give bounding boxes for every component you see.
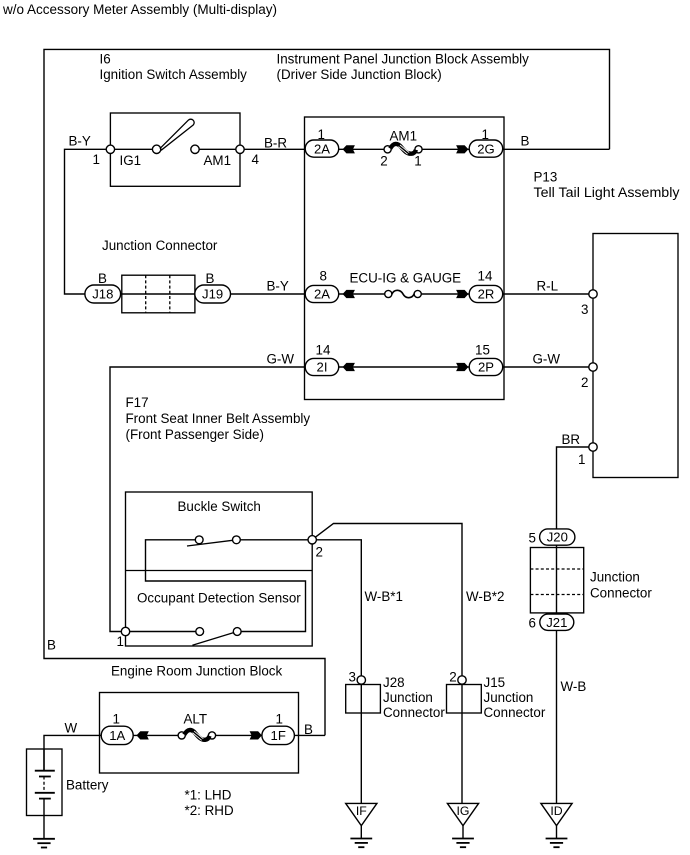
svg-text:Connector: Connector: [590, 585, 652, 600]
connector 2G pin 1: [469, 127, 503, 157]
ground IG: [447, 803, 478, 847]
wire G-W (2I to F17 pin1): [110, 351, 306, 631]
svg-text:2I: 2I: [317, 360, 328, 375]
F17 box: [126, 492, 313, 646]
connector 2A pin 1 (row1): [305, 127, 339, 157]
svg-text:Connector: Connector: [383, 705, 445, 720]
label I6 Ignition Switch Assembly: [100, 51, 248, 82]
battery: [27, 749, 109, 839]
svg-text:J18: J18: [92, 287, 113, 302]
wire through junction connector: [120, 293, 195, 295]
connector J21 pin 6: [529, 614, 574, 631]
svg-text:(Driver Side Junction Block): (Driver Side Junction Block): [277, 67, 442, 82]
svg-text:1: 1: [276, 711, 283, 726]
svg-text:J21: J21: [546, 615, 567, 630]
connector 1A pin 1: [101, 711, 133, 744]
svg-text:IF: IF: [356, 804, 367, 818]
node pin 1 (P13): [578, 443, 597, 467]
svg-text:B-R: B-R: [264, 135, 287, 150]
title text: [2, 2, 277, 17]
svg-text:B: B: [521, 133, 530, 148]
svg-text:2A: 2A: [314, 141, 330, 156]
tell tail light assembly box: [593, 234, 678, 478]
arrow into 1A: [133, 731, 178, 739]
svg-text:1: 1: [117, 634, 124, 649]
node pin 2 (P13): [581, 363, 597, 390]
fuse ECU-IG & GAUGE: [350, 271, 462, 298]
wire BR (P13 pin1 to J20): [557, 432, 589, 803]
junction connector J15: [447, 669, 546, 720]
svg-text:I6: I6: [100, 51, 111, 66]
svg-text:B: B: [47, 638, 56, 653]
connector 2R pin 14: [469, 268, 503, 302]
note *1 LHD *2 RHD: [185, 788, 234, 819]
svg-text:G-W: G-W: [533, 351, 561, 366]
ground ID: [541, 803, 572, 847]
connector J20 pin 5: [529, 529, 575, 545]
svg-text:1: 1: [578, 452, 585, 467]
svg-text:w/o Accessory Meter Assembly (: w/o Accessory Meter Assembly (Multi-disp…: [2, 2, 277, 17]
svg-text:W-B*2: W-B*2: [466, 589, 504, 604]
connector 2A pin 8 (row2): [305, 268, 339, 302]
svg-text:W-B: W-B: [561, 679, 587, 694]
svg-text:4: 4: [252, 152, 260, 167]
svg-text:R-L: R-L: [537, 278, 559, 293]
svg-text:Battery: Battery: [66, 778, 109, 793]
svg-text:1: 1: [93, 152, 100, 167]
arrow into 2I: [343, 363, 355, 371]
svg-text:2: 2: [581, 375, 588, 390]
svg-text:2G: 2G: [477, 141, 494, 156]
occupant detection sensor contacts and lever: [192, 628, 241, 646]
wire W-B*2 (F17 pin2 to J15 and ground IG): [315, 524, 504, 804]
label Buckle Switch: [178, 499, 261, 514]
pin 2 (F17): [308, 536, 323, 560]
svg-text:2R: 2R: [478, 287, 495, 302]
fuse AM1: [380, 129, 422, 169]
wire W-B (J21 to ground ID): [561, 679, 587, 694]
wire B-Y (J19 to 2A row2): [231, 278, 306, 294]
connector 1F pin 1: [262, 711, 295, 744]
svg-text:W-B*1: W-B*1: [365, 589, 403, 604]
wire B-Y (ignition pin1 to J18): [65, 134, 109, 294]
ground IF: [346, 803, 377, 847]
pin 4 (ignition switch): [236, 145, 260, 167]
svg-text:IG: IG: [457, 804, 470, 818]
svg-text:J19: J19: [202, 287, 223, 302]
node pin 3 (P13): [581, 290, 597, 317]
svg-text:Junction: Junction: [383, 690, 433, 705]
svg-text:8: 8: [320, 268, 327, 283]
arrow into 2P: [456, 363, 468, 371]
svg-text:B: B: [304, 722, 313, 737]
connector 2I pin 14 (row3): [305, 342, 339, 375]
ignition switch lever: [160, 119, 194, 150]
svg-text:B: B: [98, 271, 107, 286]
label Occupant Detection Sensor: [137, 590, 301, 605]
svg-text:J28: J28: [383, 675, 405, 690]
arrow into 2G: [422, 145, 470, 153]
svg-text:2P: 2P: [478, 360, 494, 375]
label Junction Connector (J18/J19): [102, 238, 218, 253]
arrow into 1F: [216, 731, 262, 739]
svg-text:G-W: G-W: [267, 351, 295, 366]
svg-text:6: 6: [529, 616, 536, 631]
svg-text:J15: J15: [484, 675, 506, 690]
svg-text:2A: 2A: [314, 287, 330, 302]
svg-text:Instrument Panel Junction Bloc: Instrument Panel Junction Block Assembly: [277, 51, 530, 66]
svg-text:Junction Connector: Junction Connector: [102, 238, 218, 253]
svg-text:ECU-IG & GAUGE: ECU-IG & GAUGE: [350, 271, 462, 286]
buckle switch wire loop: [146, 540, 309, 632]
connector J18: [85, 271, 121, 303]
svg-text:AM1: AM1: [204, 153, 232, 168]
wire B-R (pin4 to 2A): [244, 135, 305, 150]
svg-text:ID: ID: [550, 804, 562, 818]
svg-text:IG1: IG1: [120, 153, 142, 168]
svg-text:F17: F17: [126, 395, 149, 410]
svg-text:1A: 1A: [109, 728, 125, 743]
svg-text:Buckle Switch: Buckle Switch: [178, 499, 261, 514]
ground (battery): [33, 839, 55, 848]
wire B (1F to loop): [295, 722, 326, 737]
connector J19: [195, 271, 231, 303]
svg-text:W: W: [65, 721, 78, 736]
wire W (battery to 1A): [44, 721, 102, 770]
wire 2I to 2P: [339, 366, 470, 368]
arrow into 2A row2: [339, 290, 385, 298]
label P13 Tell Tail Light Assembly: [534, 170, 680, 201]
svg-text:2: 2: [449, 669, 456, 684]
fuse ALT: [178, 712, 216, 741]
connector 2P pin 15: [469, 342, 503, 375]
svg-text:Connector: Connector: [484, 705, 546, 720]
svg-text:1: 1: [113, 711, 120, 726]
pin 1 (ignition switch): [93, 145, 115, 167]
label F17 Front Seat Inner Belt Assembly: [126, 395, 311, 442]
occupant detection sensor wire: [130, 631, 196, 633]
svg-text:*1: LHD: *1: LHD: [185, 788, 232, 803]
ignition switch box I6: [110, 113, 240, 186]
svg-text:2: 2: [316, 544, 323, 559]
svg-text:3: 3: [581, 302, 588, 317]
svg-text:Tell Tail Light Assembly: Tell Tail Light Assembly: [534, 185, 680, 200]
engine room junction block box: [100, 693, 299, 774]
wire B loop (battery to ignition/2G): [44, 49, 610, 735]
svg-text:15: 15: [475, 342, 490, 357]
label Instrument Panel Junction Block Assembly: [277, 51, 530, 82]
svg-text:Occupant Detection Sensor: Occupant Detection Sensor: [137, 590, 301, 605]
wire W-B*1 (F17 pin2 to J28 and ground IF): [316, 540, 403, 804]
wire G-W (2P to P13 pin2): [503, 351, 589, 367]
svg-text:ALT: ALT: [184, 712, 208, 727]
svg-text:P13: P13: [534, 170, 558, 185]
svg-text:Front Seat Inner Belt Assembly: Front Seat Inner Belt Assembly: [126, 411, 311, 426]
switch contact AM1: [191, 145, 236, 168]
svg-text:B-Y: B-Y: [69, 134, 91, 149]
svg-text:Junction: Junction: [484, 690, 534, 705]
arrow into 2R: [421, 290, 469, 298]
svg-text:14: 14: [478, 268, 493, 283]
wire R-L (2R to P13 pin3): [503, 278, 589, 294]
junction connector J28: [346, 669, 446, 720]
svg-text:5: 5: [529, 530, 536, 545]
wire B (2G to loop): [503, 133, 610, 149]
svg-text:BR: BR: [562, 432, 581, 447]
svg-text:1: 1: [318, 127, 325, 142]
svg-text:(Front Passenger Side): (Front Passenger Side): [126, 427, 264, 442]
svg-text:2: 2: [380, 154, 387, 169]
svg-text:14: 14: [316, 342, 331, 357]
instrument panel junction block box: [305, 117, 505, 400]
label Engine Room Junction Block: [111, 663, 282, 678]
svg-text:J20: J20: [547, 530, 568, 545]
svg-text:AM1: AM1: [390, 129, 418, 144]
svg-text:1: 1: [482, 127, 489, 142]
svg-text:Ignition Switch Assembly: Ignition Switch Assembly: [100, 67, 248, 82]
junction connector box (J20/J21): [530, 548, 652, 613]
svg-text:B: B: [206, 271, 215, 286]
svg-text:Engine Room Junction Block: Engine Room Junction Block: [111, 663, 282, 678]
svg-text:*2: RHD: *2: RHD: [185, 803, 234, 818]
svg-text:1F: 1F: [271, 728, 286, 743]
svg-text:1: 1: [414, 154, 421, 169]
svg-text:3: 3: [349, 669, 356, 684]
buckle switch contacts and lever: [187, 536, 240, 546]
svg-text:B-Y: B-Y: [267, 278, 289, 293]
junction connector box (J18/J19): [122, 275, 195, 313]
arrow into 2A row1: [339, 145, 385, 153]
pin 1 (F17): [117, 627, 130, 649]
switch contact IG1: [115, 145, 161, 168]
svg-text:Junction: Junction: [590, 569, 640, 584]
